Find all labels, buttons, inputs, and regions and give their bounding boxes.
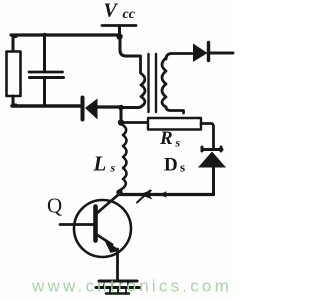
inductor Ls coil [120, 124, 127, 191]
wire junction link [120, 108, 123, 123]
diode D1 (pointing left, on bottom rail) [81, 98, 85, 120]
svg-text:D: D [164, 155, 178, 176]
wire rail to transformer primary top [120, 37, 140, 56]
resistor R1 (left vertical) [7, 52, 21, 97]
arrowhead on bottom link [139, 190, 153, 200]
Vcc terminal bar [102, 24, 136, 27]
wire secondary bottom lead [166, 107, 184, 113]
svg-text:s: s [180, 160, 185, 175]
svg-text:Q: Q [47, 194, 62, 218]
node cap-rail junction [42, 33, 46, 37]
transformer T1 core [147, 54, 149, 112]
wire top rail Vcc [11, 33, 120, 36]
node Vcc-rail junction [116, 33, 122, 39]
wire bottom rail right of diode [97, 105, 121, 108]
capacitor C1 top stub [43, 36, 46, 71]
resistor Rs [148, 118, 201, 130]
transformer T1 secondary winding [162, 58, 166, 107]
node Rs-Ls junction [118, 119, 124, 125]
svg-text:L: L [93, 152, 107, 176]
transistor Q circle [74, 200, 131, 257]
wire left vertical bottom stub [13, 96, 16, 105]
ground [99, 280, 137, 283]
wire emitter lead [97, 235, 113, 245]
capacitor C1 bottom stub [43, 79, 46, 106]
capacitor C1 plates [29, 71, 63, 74]
diode D2 (top right, pointing right) [193, 44, 208, 63]
wire transformer primary bottom lead [121, 106, 141, 110]
wire base lead [60, 223, 94, 226]
wire after D2 [209, 52, 233, 55]
second chevron on bottom link [159, 191, 168, 198]
svg-text:R: R [159, 128, 173, 149]
wire bottom link (Ds to collector node) [120, 193, 214, 196]
transformer T1 primary winding [141, 56, 146, 107]
node primary-bottom junction [118, 105, 124, 111]
wire secondary top lead [166, 54, 192, 60]
node collector junction [116, 189, 122, 195]
wire Rs right lead and elbow [201, 124, 214, 148]
svg-text:cc: cc [123, 7, 136, 22]
diode Ds (pointing up) [202, 147, 222, 151]
wire collector lead [97, 195, 119, 214]
emitter arrowhead [104, 239, 121, 254]
svg-text:s: s [175, 136, 181, 150]
wire Rs left lead [121, 121, 148, 124]
wire bottom rail left [12, 104, 80, 107]
wire emitter vertical [116, 249, 119, 281]
svg-text:s: s [110, 161, 116, 175]
wire Vcc stub [118, 26, 121, 35]
transistor Q base bar [93, 207, 98, 241]
svg-text:V: V [104, 0, 119, 22]
wire left vertical top stub [13, 37, 16, 51]
wire Ds bottom lead [212, 168, 215, 195]
svg-text:www.cntronics.com: www.cntronics.com [31, 277, 232, 296]
